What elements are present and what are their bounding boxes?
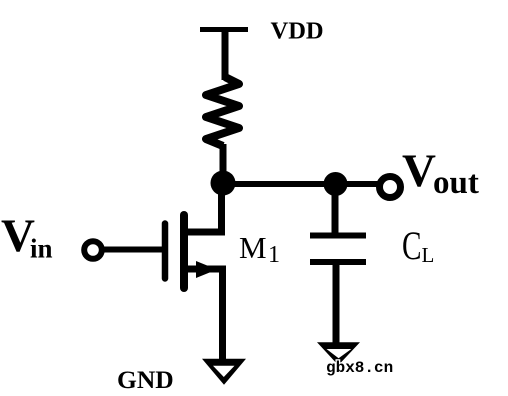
ground symbol (capacitor) (317, 342, 360, 365)
svg-text:V: V (402, 145, 436, 197)
wire capacitor to ground (333, 262, 340, 344)
capacitor CL (310, 236, 366, 263)
resistor R (load) (206, 77, 239, 146)
wire Vin terminal to gate (101, 247, 162, 253)
svg-text:in: in (30, 234, 53, 264)
svg-text:C: C (402, 223, 422, 268)
svg-text:1: 1 (268, 242, 280, 268)
svg-text:gbx8.cn: gbx8.cn (326, 359, 393, 377)
svg-text:M: M (239, 230, 267, 265)
svg-text:GND: GND (117, 365, 174, 394)
terminal Vin (open circle) (84, 241, 102, 259)
wire source of M1 to ground (219, 269, 226, 359)
wire VDD bar to resistor (222, 30, 229, 81)
svg-text:out: out (433, 165, 479, 201)
power symbol VDD (supply bar) (200, 27, 248, 32)
ground symbol (source) (202, 359, 246, 385)
svg-text:VDD: VDD (271, 18, 324, 45)
node A (drain junction dot) (211, 171, 236, 196)
wire node A to drain of M1 (186, 180, 222, 232)
svg-text:L: L (422, 243, 435, 267)
wire node B to capacitor (332, 183, 339, 234)
transistor M1 (NMOS) (165, 215, 226, 288)
watermark gbx8.cn (326, 359, 393, 377)
wire node A to output terminal (223, 181, 378, 187)
wire resistor to node A (220, 144, 227, 183)
terminal Vout (open circle) (380, 177, 401, 198)
node B (output junction dot) (324, 172, 348, 196)
